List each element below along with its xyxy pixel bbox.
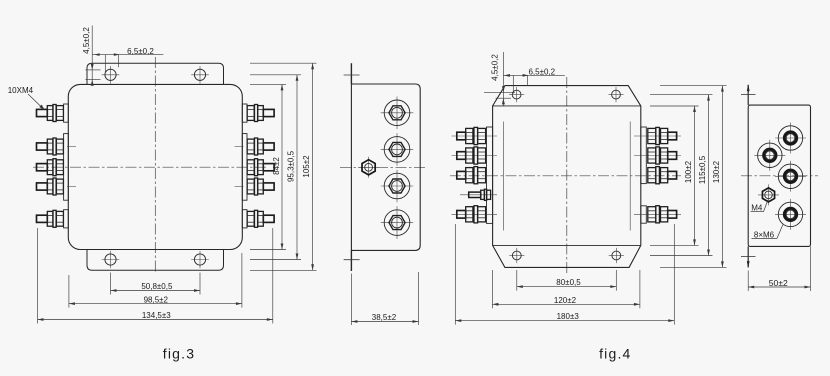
svg-text:4,5±0,2: 4,5±0,2 [82, 27, 91, 54]
fig.4 side view terminal row2 end [754, 140, 785, 171]
fig.4 bottom flange hole right [609, 248, 624, 263]
leader M4 [751, 211, 764, 213]
fig.4 stud row1 centerline right [634, 135, 681, 137]
fig.4 side view horizontal centerline [741, 175, 818, 177]
fig.4 side view mounting flange top tab [747, 85, 749, 105]
fig.4 horizontal centerline [450, 175, 681, 177]
fig.4 stud row2 centerline left [452, 155, 498, 157]
dimension 130±2 (fig.4 overall height) [660, 86, 727, 268]
fig.4 side view mounting flange bottom tab [747, 246, 749, 267]
fig.3 side view mounting flange edge [350, 63, 352, 84]
fig.4 left terminal stud M6 row2 [457, 147, 486, 164]
svg-text:80±0,5: 80±0,5 [556, 278, 581, 287]
fig.4 right terminal stud M6 row3 [648, 167, 677, 184]
fig.3 side view flange hole centerline bottom [344, 259, 360, 261]
fig.4 side view flange hole centerline top [741, 94, 756, 96]
fig.4 right terminal stud M6 row1 [648, 127, 677, 144]
fig.3 stud row2 centerline right [235, 146, 244, 148]
svg-text:115±0,5: 115±0,5 [698, 155, 707, 184]
dimension 50,8±0,5 (fig.3 bottom hole spacing) [111, 273, 201, 295]
svg-text:38,5±2: 38,5±2 [372, 313, 397, 322]
fig.3 stud row4 centerline left [67, 186, 76, 188]
fig.3 left terminal stud M4 row2 [37, 138, 64, 155]
fig.4 stud row2 centerline right [634, 155, 681, 157]
svg-text:180±3: 180±3 [557, 312, 580, 321]
fig.3 side view horizontal centerline [340, 166, 428, 168]
svg-text:130±2: 130±2 [712, 160, 721, 183]
fig.3 left terminal boss row5 [64, 210, 69, 228]
fig.4 bottom flange hole left [509, 248, 524, 263]
dimension 180±3 (fig.4 overall width) [455, 224, 674, 325]
fig.4 stud row4 centerline left [460, 194, 497, 196]
fig.4 stud row5 centerline right [634, 213, 681, 215]
fig.4 side view terminal row1 end [775, 123, 806, 154]
fig.4 side view terminal row5 end [775, 199, 806, 230]
svg-text:fig.4: fig.4 [599, 345, 631, 361]
fig.3 left terminal stud M4 row5 [37, 210, 64, 227]
fig.4 side view ground stud M4 end [758, 184, 779, 205]
dimension 80±0,5 (fig.4 bottom hole spacing) [517, 270, 617, 291]
fig.3 side view terminal 2 end [381, 133, 414, 166]
fig.4 right terminal boss strip rows1-3 [641, 127, 647, 184]
fig.3 right terminal stud M4 row1 [247, 105, 274, 122]
fig.3 top mounting flange [87, 63, 224, 84]
fig.3 stud row4 centerline right [235, 186, 244, 188]
fig.3 right terminal boss row1 [242, 104, 247, 122]
fig.4 right chamfer fold line [629, 122, 631, 231]
dimension 98,5±2 (fig.3 body width) [69, 253, 242, 308]
dimension 115±0,5 (fig.4 hole spacing) [650, 95, 713, 256]
svg-text:120±2: 120±2 [554, 296, 577, 305]
fig.4 right terminal stud M6 row2 [648, 147, 677, 164]
fig.4 left terminal stud M6 row1 [457, 127, 486, 144]
fig.3 stud row2 centerline left [67, 146, 76, 148]
fig.3 side view flange hole centerline top [344, 74, 360, 76]
fig.4 side view flange hole centerline bottom [741, 255, 756, 257]
fig.4 side view body [748, 105, 810, 246]
fig.4 vertical centerline [566, 77, 568, 273]
svg-text:50,8±0,5: 50,8±0,5 [141, 282, 173, 291]
fig.4 right terminal boss row5 [641, 206, 647, 223]
svg-text:4,5±0,2: 4,5±0,2 [491, 54, 500, 81]
dimension 95,3±0,5 (fig.3 hole spacing) [250, 75, 301, 260]
fig.3 left terminal stud M4 row1 [37, 105, 64, 122]
fig.3 left terminal stud M4 row3 [37, 159, 64, 176]
fig.3 right terminal boss rows2-4 [242, 134, 247, 201]
fig.3 top flange hole right [191, 66, 209, 84]
fig.3 bottom flange hole right [191, 251, 209, 269]
fig.3 side view body [351, 84, 420, 250]
dimension 6,5±0,2 (fig.3) [92, 47, 163, 73]
fig.4 left terminal stud M6 row3 [457, 167, 486, 184]
fig.3 side view terminal 4 end [381, 206, 414, 239]
fig.4 left chamfer fold line [502, 122, 504, 231]
fig.4 top flange fold edge [493, 105, 641, 107]
fig.4 left terminal stud M6 row5 [457, 206, 486, 223]
fig.4 filter body outline with chamfered flanges [493, 86, 641, 268]
fig.3 side view ground stud M4 end [358, 157, 379, 178]
dimension 120±2 (fig.4 body width) [492, 270, 640, 308]
fig.4 right terminal stud M6 row5 [648, 206, 677, 223]
svg-text:84±2: 84±2 [272, 157, 281, 175]
fig.3 side view terminal 3 end [381, 170, 414, 203]
svg-text:105±2: 105±2 [302, 155, 311, 178]
fig.3 left terminal boss rows2-4 [64, 134, 69, 201]
svg-text:50±2: 50±2 [769, 278, 788, 288]
fig.4 left ground stud M4 [469, 189, 491, 200]
fig.3 side view terminal 1 end [381, 97, 414, 130]
dimension 38,5±2 (fig.3 depth) [351, 272, 418, 325]
dimension 134,5±3 (fig.3 overall width) [38, 228, 273, 324]
fig.3 right terminal boss row5 [242, 210, 247, 228]
svg-text:fig.3: fig.3 [163, 345, 195, 361]
fig.4 stud row5 centerline left [452, 213, 498, 215]
fig.3 bottom mounting flange [87, 250, 224, 271]
svg-text:98,5±2: 98,5±2 [144, 295, 169, 304]
fig.3 right terminal stud M4 row3 [247, 159, 274, 176]
leader 8×M6 [752, 237, 778, 239]
fig.3 right terminal stud M4 row5 [247, 210, 274, 227]
fig.3 right terminal stud M4 row4 [247, 178, 274, 195]
dimension 84±2 (fig.3 body height) [250, 84, 286, 249]
fig.4 top flange hole left [509, 87, 524, 102]
dimension 6,5±0,2 (fig.4) [503, 68, 564, 94]
fig.4 bottom flange fold edge [493, 244, 641, 246]
dimension 4,5±0,2 (fig.4) [484, 52, 515, 106]
svg-text:8×M6: 8×M6 [754, 230, 775, 239]
svg-text:134,5±3: 134,5±3 [142, 311, 171, 320]
fig.4 top flange hole right [608, 87, 623, 102]
fig.4 stud row1 centerline left [452, 135, 498, 137]
dimension 105±2 (fig.3 overall height) [250, 63, 317, 270]
fig.3 left terminal stud M4 row4 [37, 178, 64, 195]
dimension 50±2 (fig.4 depth) [748, 246, 810, 291]
fig.3 filter body [68, 84, 242, 249]
fig.3 horizontal centerline [33, 166, 268, 168]
dimension 4,5±0,2 (fig.3) [82, 26, 101, 86]
dimension 100±2 (fig.4 body height) [650, 106, 699, 245]
svg-text:100±2: 100±2 [684, 160, 693, 183]
fig.3 top flange hole left [102, 66, 120, 84]
fig.3 vertical centerline [154, 57, 156, 272]
fig.3 bottom flange hole left [102, 251, 120, 269]
leader 10XM4 [28, 94, 43, 108]
fig.3 right terminal stud M4 row2 [247, 138, 274, 155]
svg-text:95,3±0,5: 95,3±0,5 [287, 150, 296, 182]
svg-text:10XM4: 10XM4 [8, 86, 34, 95]
fig.4 side view terminal row3 end [775, 161, 806, 192]
fig.3 left terminal boss row1 [64, 104, 69, 122]
fig.4 left terminal boss strip [487, 127, 493, 223]
